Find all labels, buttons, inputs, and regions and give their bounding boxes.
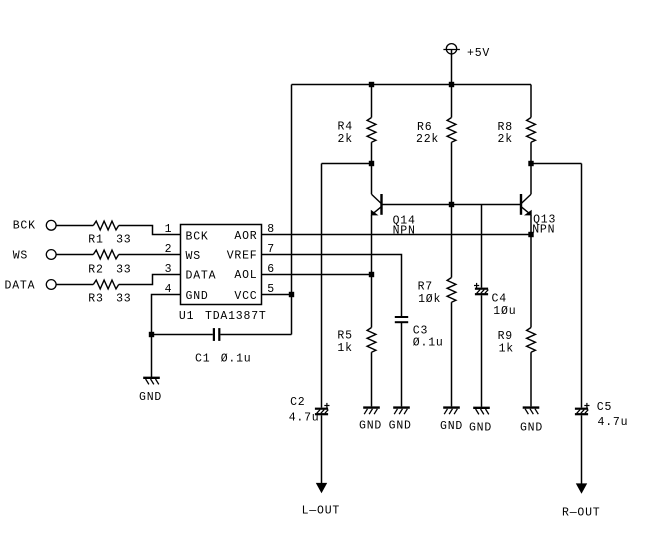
node L-OUT: [316, 483, 327, 493]
wire: [119, 254, 181, 256]
svg-text:WS: WS: [186, 250, 201, 263]
svg-text:+5V: +5V: [467, 47, 490, 60]
svg-text:VCC: VCC: [234, 290, 257, 303]
svg-text:GND: GND: [469, 421, 492, 434]
resistor R3: [93, 280, 118, 289]
wire: [119, 226, 181, 235]
wire: [262, 234, 532, 236]
svg-text:GND: GND: [440, 420, 463, 433]
svg-text:WS: WS: [13, 249, 28, 262]
wire: [119, 275, 181, 285]
capacitor C2: [315, 408, 328, 410]
svg-text:2: 2: [165, 243, 173, 256]
resistor R5: [367, 328, 376, 353]
wire: [322, 163, 372, 165]
wire: [451, 50, 453, 118]
capacitor C4: [481, 205, 483, 288]
svg-text:3: 3: [165, 263, 173, 276]
wire: [56, 284, 93, 286]
resistor R6: [447, 118, 456, 143]
resistor R7: [451, 205, 453, 278]
svg-text:1: 1: [165, 223, 173, 236]
svg-text:1k: 1k: [499, 343, 514, 356]
svg-text:4.7u: 4.7u: [289, 412, 320, 425]
svg-text:BCK: BCK: [186, 231, 209, 244]
wire: [56, 225, 93, 227]
capacitor C1: [152, 334, 213, 336]
svg-text:C2: C2: [290, 396, 305, 409]
svg-text:2k: 2k: [498, 133, 513, 146]
node: [369, 272, 374, 277]
svg-text:4.7u: 4.7u: [598, 416, 629, 429]
svg-text:AOL: AOL: [234, 269, 257, 282]
power +5V: [446, 44, 456, 54]
transistor Q13: [530, 164, 532, 195]
wire: [262, 255, 402, 317]
svg-text:NPN: NPN: [532, 224, 555, 237]
svg-text:DATA: DATA: [5, 279, 36, 292]
svg-text:2k: 2k: [338, 133, 353, 146]
svg-text:DATA: DATA: [186, 269, 217, 282]
svg-text:L—OUT: L—OUT: [302, 504, 341, 517]
wire: [321, 415, 323, 484]
ground: [473, 407, 490, 409]
wire: [371, 215, 373, 328]
svg-text:R8: R8: [498, 121, 513, 134]
node: [528, 232, 533, 237]
transistor Q14: [371, 164, 373, 195]
node: [369, 161, 374, 166]
svg-text:R1: R1: [88, 234, 103, 247]
wire: [382, 204, 522, 206]
ground: [363, 406, 380, 408]
wire: [291, 85, 293, 335]
node: [289, 292, 294, 297]
svg-text:GND: GND: [139, 391, 162, 404]
ground: [443, 406, 460, 408]
svg-text:1Øu: 1Øu: [493, 305, 516, 318]
svg-text:1Øk: 1Øk: [418, 293, 441, 306]
ground: [143, 377, 160, 379]
svg-text:GND: GND: [359, 420, 382, 433]
svg-text:NPN: NPN: [393, 224, 416, 237]
svg-text:R2: R2: [88, 263, 103, 276]
ground: [393, 406, 410, 408]
resistor R9: [527, 328, 536, 353]
resistor R8: [530, 85, 532, 118]
node R-OUT: [576, 483, 587, 493]
svg-text:C4: C4: [492, 293, 507, 306]
svg-text:AOR: AOR: [234, 230, 257, 243]
wire: [152, 295, 181, 378]
svg-text:Ø.1u: Ø.1u: [413, 337, 444, 350]
svg-text:C1: C1: [195, 352, 210, 365]
wire: [531, 163, 582, 165]
svg-text:TDA1387T: TDA1387T: [205, 310, 267, 323]
svg-text:GND: GND: [186, 290, 209, 303]
node: [528, 161, 533, 166]
svg-text:33: 33: [116, 234, 131, 247]
resistor R4: [371, 85, 373, 118]
svg-text:R5: R5: [337, 330, 352, 343]
svg-text:R3: R3: [88, 292, 103, 305]
svg-text:BCK: BCK: [13, 220, 36, 233]
wire: [581, 415, 583, 484]
node: [369, 82, 374, 87]
svg-text:1k: 1k: [337, 342, 352, 355]
wire: [262, 274, 372, 276]
IC U1 TDA1387T: [181, 225, 262, 305]
node: [149, 332, 154, 337]
capacitor C3: [401, 323, 403, 407]
svg-text:GND: GND: [389, 420, 412, 433]
resistor R1: [93, 221, 118, 230]
svg-text:R4: R4: [338, 121, 353, 134]
node: [449, 82, 454, 87]
wire: [56, 254, 93, 256]
wire: [262, 294, 292, 296]
capacitor C5: [575, 408, 588, 410]
svg-text:GND: GND: [520, 421, 543, 434]
svg-text:Ø.1u: Ø.1u: [221, 352, 252, 365]
svg-text:R6: R6: [417, 121, 432, 134]
svg-text:VREF: VREF: [227, 250, 258, 263]
resistor R2: [93, 250, 118, 259]
node: [449, 202, 454, 207]
wire: [292, 84, 532, 86]
svg-text:R—OUT: R—OUT: [562, 506, 601, 519]
wire: [581, 164, 583, 408]
svg-text:U1: U1: [179, 310, 194, 323]
wire: [530, 215, 532, 328]
svg-text:33: 33: [116, 263, 131, 276]
svg-text:R9: R9: [498, 330, 513, 343]
svg-text:33: 33: [116, 292, 131, 305]
svg-text:R7: R7: [418, 281, 433, 294]
ground: [523, 406, 540, 408]
wire: [321, 164, 323, 408]
svg-text:C5: C5: [597, 401, 612, 414]
svg-text:22k: 22k: [416, 133, 439, 146]
